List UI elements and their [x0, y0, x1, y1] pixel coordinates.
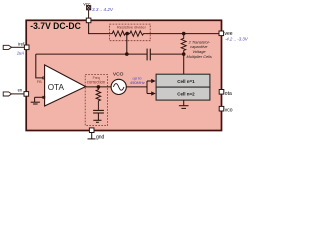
svg-text:ota: ota [225, 91, 232, 97]
wire vertical split [146, 81, 148, 94]
svg-text:en: en [18, 87, 23, 92]
resistor R4 (freq correction) [96, 87, 101, 110]
feedback rail wire left [36, 53, 127, 55]
junction divider midpoint [125, 32, 129, 36]
freq correction dashed box [85, 75, 107, 126]
wire divider midpoint down [126, 34, 128, 55]
wire vcc pin to divider [89, 23, 111, 34]
svg-text:Cell n=1: Cell n=1 [177, 79, 195, 84]
svg-text:FB: FB [37, 80, 42, 84]
capacitor C2 (freq correction) [93, 110, 104, 113]
wire VCO to cells [126, 86, 147, 88]
feedback rail wire to capacitor [127, 53, 147, 55]
wire branch to cell 1 [183, 54, 185, 74]
ota pin [219, 90, 224, 95]
VCO sine wave [113, 84, 124, 91]
svg-text:Resistive divider: Resistive divider [117, 25, 147, 30]
frequency label up to 450MHz [130, 76, 145, 85]
arrow to cell 1 [147, 80, 152, 82]
cell n=1 box [156, 74, 210, 87]
junction multiplier branch bottom [182, 52, 186, 56]
iref port [3, 45, 11, 49]
multiplier cells note [187, 39, 212, 59]
capacitor C1 (series) [147, 49, 150, 61]
gnd pin [89, 128, 94, 133]
svg-text:Cell n=2: Cell n=2 [177, 92, 195, 97]
wire vcc symbol to pin [88, 10, 90, 19]
svg-text:vcc: vcc [83, 1, 91, 6]
wire divider to vee pin [146, 33, 220, 35]
FB pin pad [43, 77, 45, 79]
junction freq correction tap [97, 85, 101, 89]
freq correction label [87, 76, 106, 85]
vcc power symbol [87, 6, 91, 10]
VCO oscillator circle [111, 79, 126, 94]
iref pin [24, 45, 29, 50]
svg-text:correction: correction [87, 80, 106, 85]
vco pin [219, 106, 224, 111]
cell n=2 box [156, 87, 210, 100]
en pin [24, 92, 29, 97]
svg-text:3.3 .. 4.2V: 3.3 .. 4.2V [92, 7, 114, 12]
op-amp OTA triangle [45, 65, 86, 106]
resistor R1 (divider) [111, 31, 127, 36]
arrow to cell 2 [147, 93, 152, 95]
FB feedback wire down to OTA [36, 54, 44, 78]
ground at OTA + input [31, 97, 40, 104]
vee pin [219, 31, 224, 36]
wire capacitor to multiplier branch [150, 53, 183, 55]
OTA + input wire [35, 96, 45, 98]
junction multiplier branch top [182, 32, 186, 36]
wire OTA output to VCO [86, 86, 112, 88]
svg-text:450MHz: 450MHz [130, 80, 145, 85]
DC-DC converter block outline [26, 20, 221, 130]
wire iref port to pin [12, 46, 25, 48]
svg-text:Multiplier Cells: Multiplier Cells [187, 54, 212, 59]
resistive divider dashed box [110, 24, 151, 41]
svg-text:-3.7V DC-DC: -3.7V DC-DC [30, 21, 81, 31]
svg-text:1uA: 1uA [17, 50, 25, 55]
vcc pin [86, 18, 91, 23]
ground below C2 [93, 113, 101, 122]
svg-text:vco: vco [225, 108, 233, 114]
svg-text:-4.2 .. -3.3V: -4.2 .. -3.3V [225, 37, 249, 42]
resistor R2 (divider) [127, 31, 146, 36]
en port [3, 92, 11, 96]
svg-text:gnd: gnd [96, 135, 105, 141]
ground below cells [179, 100, 189, 108]
svg-text:VCO: VCO [113, 71, 124, 77]
OTA + input pad [43, 96, 45, 98]
junction feedback rail [125, 52, 129, 56]
wire en port to pin [12, 93, 25, 95]
svg-text:OTA: OTA [48, 83, 65, 92]
ground symbol at gnd [88, 133, 96, 139]
resistor R3 (multiplier, vertical) [181, 34, 186, 55]
